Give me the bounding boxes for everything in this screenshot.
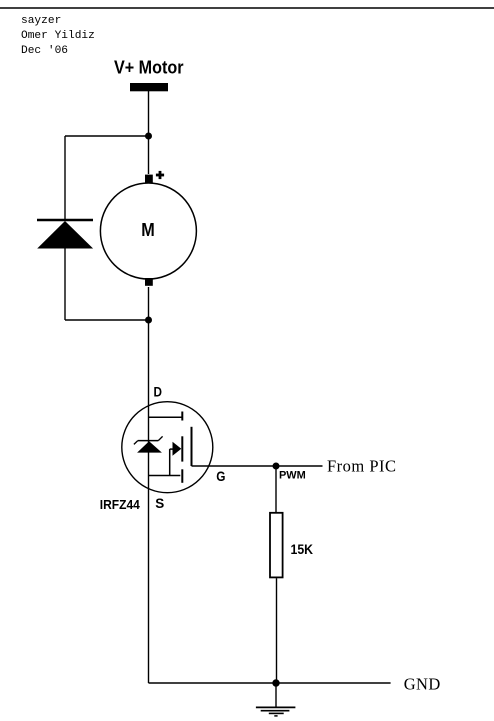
svg-text:sayzer: sayzer — [21, 15, 61, 27]
svg-text:V+ Motor: V+ Motor — [114, 57, 184, 77]
svg-text:PWM: PWM — [279, 469, 306, 481]
svg-text:Dec '06: Dec '06 — [21, 45, 68, 57]
svg-text:IRFZ44: IRFZ44 — [100, 497, 141, 512]
svg-text:From PIC: From PIC — [327, 457, 397, 476]
svg-text:GND: GND — [404, 675, 441, 694]
svg-text:15K: 15K — [291, 541, 314, 557]
svg-text:G: G — [216, 468, 225, 484]
svg-text:D: D — [154, 384, 163, 400]
svg-text:M: M — [141, 220, 155, 240]
svg-text:S: S — [155, 495, 164, 511]
svg-text:Omer Yildiz: Omer Yildiz — [21, 30, 95, 42]
